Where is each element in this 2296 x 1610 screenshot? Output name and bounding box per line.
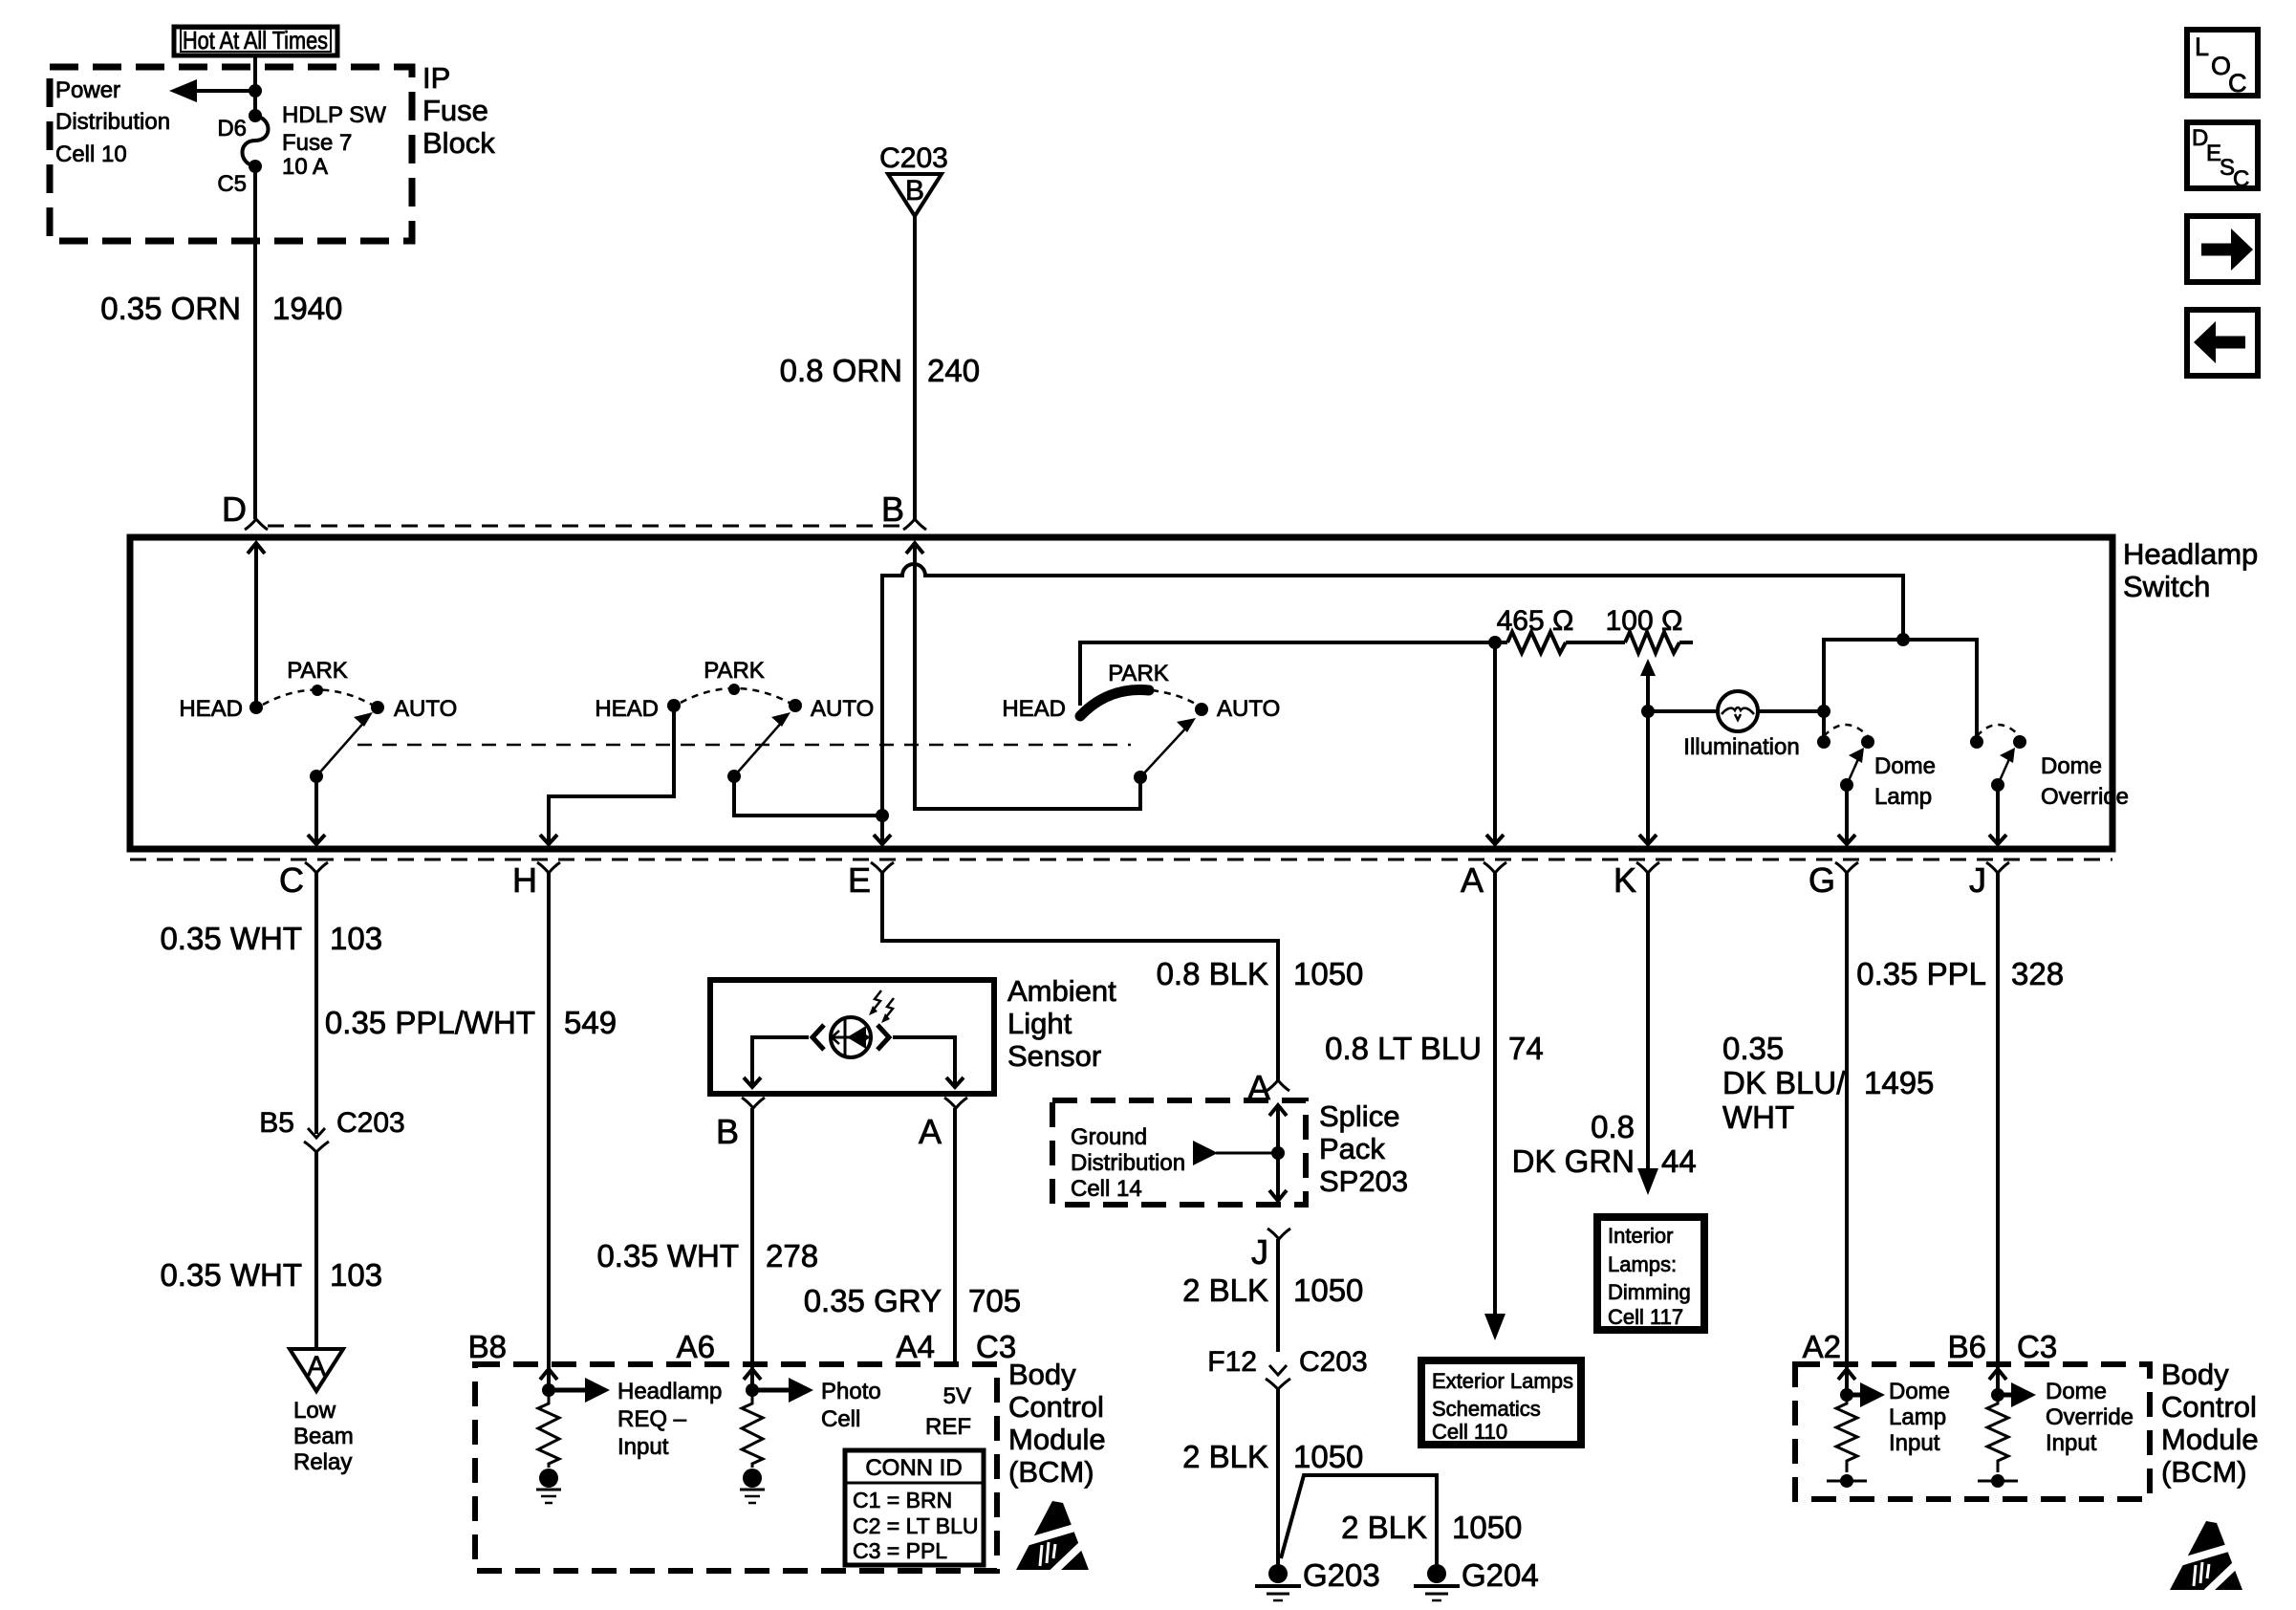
mechanical linkage dashed line: [357, 744, 1131, 747]
wire 0.8 ORN 240 from C203 to switch pin B: [913, 216, 917, 519]
svg-text:Low: Low: [293, 1398, 336, 1424]
resistor B8 pulldown: [538, 1390, 559, 1468]
headlamp switch box outline: [130, 537, 2112, 849]
reference box Interior Lamps: Dimming Cell 117: [1597, 1217, 1704, 1330]
svg-text:10 A: 10 A: [282, 154, 328, 180]
wire S5 wiper to pin J: [1996, 785, 2000, 843]
pin J chevron: [1969, 860, 2009, 900]
switch S2 HEAD contact: [667, 699, 681, 712]
wire 0.35 DK BLU/WHT 1495 pin G to BCM A2: [1845, 873, 1849, 1395]
svg-text:465 Ω: 465 Ω: [1497, 605, 1574, 637]
svg-text:2 BLK: 2 BLK: [1182, 1273, 1268, 1308]
arrow Ground Distribution to splice: [1193, 1141, 1278, 1165]
wire 0.35 PPL 328 pin J to BCM B6: [1996, 873, 2000, 1395]
wire 2 BLK 1050 branch to G204: [1281, 1475, 1437, 1565]
svg-text:1940: 1940: [272, 291, 342, 326]
switch S3 wiper arm: [1134, 718, 1196, 784]
svg-text:A: A: [919, 1112, 942, 1151]
svg-text:Photo: Photo: [821, 1379, 881, 1404]
svg-text:Module: Module: [2161, 1423, 2259, 1456]
svg-text:Headlamp: Headlamp: [2123, 537, 2258, 571]
wire illumination lamp feed: [1648, 709, 1719, 713]
switch S1 wiper: [310, 712, 373, 783]
splice pack pin A chevron: [1247, 1068, 1289, 1107]
svg-text:Dome: Dome: [2041, 753, 2102, 779]
ground G203: [1255, 1557, 1380, 1600]
svg-text:0.35: 0.35: [1722, 1031, 1784, 1066]
svg-text:705: 705: [968, 1283, 1021, 1318]
label Power Distribution Cell 10: [55, 77, 170, 167]
label 5V REF at pin A4: [925, 1383, 971, 1440]
svg-text:0.35 ORN: 0.35 ORN: [100, 291, 241, 326]
wire 2 BLK 1050 SP203 to F12: [1276, 1239, 1280, 1352]
svg-text:B: B: [905, 175, 924, 207]
label Body Control Module (BCM): [1008, 1358, 1106, 1489]
svg-text:HEAD: HEAD: [595, 696, 659, 722]
node K wire junction: [1641, 705, 1655, 718]
connector dashed line at switch top: [268, 525, 904, 528]
wire 0.8 LT BLU 74 to Exterior Lamps: [1493, 873, 1497, 1319]
node illumination junction: [1817, 705, 1830, 718]
svg-text:F12: F12: [1207, 1346, 1257, 1378]
CONN ID table: [845, 1450, 984, 1565]
svg-text:Distribution: Distribution: [55, 109, 170, 135]
svg-text:C: C: [2233, 166, 2249, 192]
svg-text:103: 103: [330, 1257, 382, 1293]
svg-text:Cell 110: Cell 110: [1432, 1420, 1507, 1444]
svg-text:A: A: [1461, 860, 1484, 900]
svg-text:0.8 ORN: 0.8 ORN: [780, 353, 902, 388]
svg-text:(BCM): (BCM): [1008, 1455, 1094, 1489]
wire 0.35 WHT 103 pin C to C203 B5: [314, 873, 318, 1134]
wire label 0.8 DK GRN 44: [1512, 1109, 1697, 1179]
wire E riser with hop over B wire: [882, 564, 1903, 816]
svg-text:0.35 PPL: 0.35 PPL: [1856, 956, 1986, 991]
svg-text:1495: 1495: [1864, 1065, 1934, 1100]
right arrow box: [2187, 216, 2258, 282]
switch S3 AUTO contact: [1195, 703, 1208, 716]
wire between resistors: [1566, 641, 1625, 644]
ESD symbol 1: [1016, 1501, 1090, 1576]
svg-text:L: L: [2195, 33, 2209, 61]
wire label 0.35 DK BLU/WHT 1495: [1722, 1031, 1934, 1135]
svg-text:G204: G204: [1462, 1557, 1539, 1593]
svg-text:B6: B6: [1948, 1329, 1986, 1364]
svg-text:Cell 10: Cell 10: [55, 141, 127, 167]
inline connector C203 pin B5: [259, 1107, 404, 1152]
label Dome Override Input: [2046, 1379, 2134, 1456]
label Dome Lamp: [1874, 753, 1936, 810]
wire wiper to pin K: [1646, 711, 1650, 843]
svg-text:Dimming: Dimming: [1608, 1280, 1691, 1304]
svg-text:2 BLK: 2 BLK: [1182, 1439, 1268, 1474]
wire junction to pin A: [1493, 642, 1497, 843]
svg-text:Override: Override: [2046, 1404, 2134, 1430]
svg-text:C3 = PPL: C3 = PPL: [853, 1538, 947, 1563]
svg-text:Switch: Switch: [2123, 570, 2210, 603]
svg-text:G203: G203: [1303, 1557, 1380, 1593]
left arrow box: [2187, 310, 2258, 376]
svg-text:328: 328: [2011, 956, 2064, 991]
DESC box: [2187, 122, 2258, 192]
node dome feed junction: [1896, 633, 1910, 646]
switch S2 wiper: [727, 712, 791, 783]
svg-text:Override: Override: [2041, 784, 2129, 810]
wire arrow to Power Distribution: [169, 79, 255, 102]
wire label 0.35 ORN 1940: [100, 291, 342, 326]
ESD symbol 2: [2170, 1521, 2243, 1596]
svg-text:Dome: Dome: [2046, 1379, 2107, 1404]
label IP Fuse Block: [422, 61, 495, 160]
svg-text:Hot At All Times: Hot At All Times: [183, 26, 328, 54]
node B8 junction: [542, 1383, 555, 1397]
wire 0.8 BLK 1050 pin E to splice pack: [882, 873, 1278, 1081]
svg-text:0.35 WHT: 0.35 WHT: [596, 1238, 739, 1273]
node A2 resistor ground bar: [1827, 1474, 1867, 1488]
resistor B6 pulldown: [1987, 1395, 2008, 1472]
svg-text:C2 = LT BLU: C2 = LT BLU: [853, 1513, 978, 1538]
wire 0.8 DK GRN 44 to Interior Lamps: [1646, 873, 1650, 1174]
svg-text:Dome: Dome: [1874, 753, 1936, 779]
label Headlamp Switch: [2123, 537, 2258, 603]
svg-text:AUTO: AUTO: [394, 696, 457, 722]
svg-text:Lamp: Lamp: [1874, 784, 1932, 810]
arrow Photo Cell: [752, 1378, 813, 1403]
svg-text:HEAD: HEAD: [179, 696, 243, 722]
svg-text:PARK: PARK: [704, 658, 765, 684]
svg-text:IP: IP: [422, 61, 450, 95]
node resistor row junction A: [1488, 636, 1502, 649]
svg-text:Cell 14: Cell 14: [1071, 1176, 1142, 1202]
svg-text:Power: Power: [55, 77, 120, 103]
svg-text:E: E: [848, 860, 871, 900]
svg-text:1050: 1050: [1293, 1273, 1363, 1308]
svg-text:0.8 BLK: 0.8 BLK: [1157, 956, 1268, 991]
svg-text:C203: C203: [336, 1107, 405, 1139]
label Low Beam Relay: [293, 1398, 354, 1475]
pin K exit arrow: [1639, 835, 1657, 844]
pin G chevron: [1809, 860, 1858, 900]
svg-text:Interior: Interior: [1608, 1224, 1673, 1248]
svg-text:C: C: [2228, 69, 2247, 98]
svg-text:1050: 1050: [1293, 1439, 1363, 1474]
svg-text:A2: A2: [1803, 1329, 1841, 1364]
svg-text:G: G: [1809, 860, 1835, 900]
svg-text:AUTO: AUTO: [811, 696, 874, 722]
arrow Headlamp REQ Input: [549, 1378, 610, 1403]
Hot At All Times box: [174, 26, 337, 55]
switch S5 wiper: [1991, 748, 2015, 792]
splice pack SP203 dashed box: [1052, 1100, 1306, 1205]
svg-text:J: J: [1969, 860, 1986, 900]
svg-text:C3: C3: [2017, 1329, 2057, 1364]
pin D entry arrow: [248, 543, 265, 554]
label Headlamp REQ - Input: [617, 1379, 722, 1460]
svg-text:5V: 5V: [943, 1383, 971, 1409]
pin H chevron: [512, 860, 560, 900]
pin B chevron: [881, 490, 926, 530]
switch S3 wiper blade (HEAD-PARK position, thick): [1080, 690, 1149, 716]
switch S4 wiper: [1840, 748, 1864, 792]
svg-text:0.8: 0.8: [1591, 1109, 1635, 1144]
pin B6 entry arrow: [1989, 1369, 2006, 1380]
pin A chevron: [1461, 860, 1506, 900]
svg-text:HDLP SW: HDLP SW: [282, 102, 386, 128]
pin H exit arrow: [540, 835, 557, 844]
connector dashed line at switch bottom: [130, 859, 2112, 861]
lamp Illumination: [1683, 691, 1799, 760]
switch S1 PARK contact: [312, 685, 323, 696]
resistor A6 pulldown: [742, 1390, 763, 1468]
wire 0.35 ORN 1940 from fuse C5 to switch pin D: [253, 166, 257, 519]
pin J exit arrow: [1989, 835, 2006, 844]
inline connector C203 pin F12: [1207, 1346, 1367, 1389]
connector C203 triangle pin B (top): [879, 142, 948, 216]
switch S1 travel arc: [263, 690, 372, 706]
svg-text:CONN ID: CONN ID: [865, 1455, 962, 1481]
svg-text:REF: REF: [925, 1414, 971, 1440]
svg-text:Schematics: Schematics: [1432, 1397, 1541, 1421]
wire S2 HEAD to pin H: [549, 706, 674, 843]
svg-text:D6: D6: [217, 116, 247, 141]
svg-text:HEAD: HEAD: [1002, 696, 1066, 722]
svg-text:549: 549: [564, 1005, 617, 1040]
svg-text:C: C: [279, 860, 304, 900]
svg-text:Fuse: Fuse: [422, 94, 488, 127]
svg-text:Splice: Splice: [1319, 1099, 1399, 1133]
svg-text:Headlamp: Headlamp: [617, 1379, 722, 1404]
wire label 0.8 LT BLU 74: [1325, 1031, 1544, 1066]
wire S1 wiper to pin C: [314, 776, 318, 843]
svg-text:A4: A4: [897, 1329, 935, 1364]
resistor R1 465 ohm: [1497, 605, 1574, 653]
label Ground Distribution Cell 14: [1071, 1124, 1185, 1202]
svg-text:0.8 LT BLU: 0.8 LT BLU: [1325, 1031, 1482, 1066]
switch S1 HEAD contact: [249, 701, 263, 714]
svg-text:B8: B8: [468, 1329, 507, 1364]
switch S2 travel arc: [681, 688, 790, 703]
svg-text:0.35 GRY: 0.35 GRY: [804, 1283, 942, 1318]
connector triangle pin A to Low Beam Relay: [290, 1349, 343, 1391]
node E riser junction: [876, 809, 889, 822]
svg-text:A: A: [307, 1351, 326, 1382]
sensor pin B chevron: [716, 1098, 765, 1151]
svg-text:DK BLU/: DK BLU/: [1722, 1065, 1846, 1100]
wire S2 wiper to E riser: [734, 776, 882, 816]
svg-text:0.35 WHT: 0.35 WHT: [160, 921, 302, 956]
svg-text:SP203: SP203: [1319, 1164, 1408, 1198]
wire pin B to S3 wiper: [915, 545, 1140, 809]
IP Fuse Block dashed box: [50, 67, 412, 241]
node SP203 junction: [1271, 1146, 1285, 1160]
arrow Dome Override Input: [1998, 1382, 2036, 1407]
wire label 0.8 BLK 1050: [1157, 956, 1364, 991]
svg-text:AUTO: AUTO: [1217, 696, 1280, 722]
node A6 junction: [746, 1383, 759, 1397]
svg-text:Lamp: Lamp: [1889, 1404, 1946, 1430]
svg-text:B5: B5: [259, 1107, 294, 1139]
pin B entry arrow: [906, 543, 923, 554]
svg-text:Fuse 7: Fuse 7: [282, 130, 352, 156]
wire S4 wiper to pin G: [1845, 785, 1849, 843]
wire label 2 BLK 1050: [1182, 1439, 1363, 1474]
svg-text:Sensor: Sensor: [1007, 1039, 1101, 1073]
wire label 2 BLK 1050: [1341, 1510, 1522, 1545]
pin D chevron: [222, 490, 268, 530]
svg-text:Module: Module: [1008, 1423, 1106, 1456]
wire label 2 BLK 1050: [1182, 1273, 1363, 1308]
switch S2 PARK contact: [728, 684, 740, 695]
svg-text:1050: 1050: [1293, 956, 1363, 991]
wire label 0.35 WHT 103: [160, 1257, 382, 1293]
svg-text:74: 74: [1508, 1031, 1544, 1066]
wire photocell left to sensor pin B: [752, 1037, 809, 1086]
label Ambient Light Sensor: [1007, 974, 1116, 1073]
pin C chevron: [279, 860, 328, 900]
wire 0.35 WHT 103 to Low Beam Relay: [314, 1152, 318, 1348]
pin K chevron: [1614, 860, 1659, 900]
svg-text:Cell 117: Cell 117: [1608, 1305, 1683, 1329]
svg-text:K: K: [1614, 860, 1636, 900]
pin E chevron: [848, 860, 894, 900]
wire 0.35 GRY 705 sensor A to BCM A4: [953, 1108, 957, 1364]
svg-text:240: 240: [927, 353, 980, 388]
svg-text:C203: C203: [1299, 1346, 1368, 1378]
fuse F7 HDLP SW 10A: [243, 109, 269, 173]
svg-text:0.35 PPL/WHT: 0.35 PPL/WHT: [325, 1005, 535, 1040]
svg-text:Block: Block: [422, 126, 495, 160]
pin A6 entry arrow: [744, 1369, 761, 1380]
label Dome Override: [2041, 753, 2129, 810]
svg-text:Input: Input: [617, 1434, 669, 1460]
switch S5 Dome Override contacts: [1970, 725, 2026, 749]
svg-text:Lamps:: Lamps:: [1608, 1252, 1677, 1276]
svg-text:C1 = BRN: C1 = BRN: [853, 1488, 952, 1512]
wire photocell right to sensor pin A: [893, 1037, 955, 1086]
label Body Control Module (BCM): [2161, 1358, 2259, 1489]
node B6 resistor ground bar: [1978, 1474, 2018, 1488]
svg-text:J: J: [1251, 1232, 1268, 1272]
svg-text:C203: C203: [879, 142, 948, 174]
svg-text:PARK: PARK: [1108, 661, 1169, 686]
reference box Exterior Lamps Schematics Cell 110: [1421, 1360, 1581, 1445]
switch S1 AUTO contact: [371, 701, 384, 714]
LOC box: [2187, 30, 2258, 98]
svg-text:Ambient: Ambient: [1007, 974, 1116, 1008]
switch S4 Dome Lamp contacts: [1817, 725, 1874, 749]
pin G exit arrow: [1838, 835, 1855, 844]
ground G204: [1414, 1557, 1539, 1600]
resistor R2 100 ohm potentiometer: [1606, 605, 1693, 653]
svg-text:H: H: [512, 860, 537, 900]
svg-text:REQ –: REQ –: [617, 1406, 687, 1432]
svg-text:Body: Body: [1008, 1358, 1076, 1391]
pin B8 entry arrow: [540, 1369, 557, 1380]
wire label 0.8 ORN 240: [780, 353, 980, 388]
svg-text:PARK: PARK: [287, 658, 348, 684]
resistor A2 pulldown: [1836, 1395, 1857, 1472]
svg-text:1050: 1050: [1452, 1510, 1522, 1545]
switch S2 AUTO contact: [789, 699, 802, 712]
wire label 0.35 WHT 278: [596, 1238, 818, 1273]
arrow Dome Lamp Input: [1847, 1382, 1885, 1407]
photocell PC1: [812, 1017, 889, 1057]
svg-text:Cell: Cell: [821, 1406, 860, 1432]
pin A exit arrow: [1486, 835, 1504, 844]
svg-text:A6: A6: [677, 1329, 715, 1364]
wire from Hot At All Times to fuse: [253, 55, 257, 116]
potentiometer wiper arrow: [1640, 659, 1656, 711]
wire top feed to dome switches: [1824, 640, 1977, 742]
label Dome Lamp Input: [1889, 1379, 1950, 1456]
svg-text:WHT: WHT: [1722, 1099, 1794, 1135]
wire label 0.35 PPL 328: [1856, 956, 2064, 991]
label Photo Cell: [821, 1379, 881, 1432]
wire 0.35 WHT 278 sensor B to BCM A6: [750, 1108, 754, 1390]
svg-text:Control: Control: [1008, 1390, 1104, 1424]
svg-text:B: B: [716, 1112, 739, 1151]
wire label 0.35 WHT 103: [160, 921, 382, 956]
svg-text:C5: C5: [217, 171, 247, 197]
ground G-B8: [536, 1469, 561, 1503]
label Splice Pack SP203: [1319, 1099, 1408, 1198]
wire label 0.35 PPL/WHT 549: [325, 1005, 617, 1040]
splice wire through SP203: [1269, 1105, 1287, 1201]
svg-text:Body: Body: [2161, 1358, 2229, 1391]
wire 0.35 PPL/WHT 549 pin H to BCM B8: [547, 873, 551, 1390]
ground G-A6: [740, 1469, 765, 1503]
svg-text:Control: Control: [2161, 1390, 2257, 1424]
wire E riser to pin E: [880, 816, 884, 843]
pin E exit arrow: [874, 835, 891, 844]
sensor pin A chevron: [919, 1098, 967, 1151]
switch S3 HEAD contact wire to resistors: [1080, 642, 1507, 706]
photocell light rays: [869, 990, 894, 1023]
ambient light sensor box: [710, 980, 994, 1094]
svg-text:278: 278: [766, 1238, 818, 1273]
svg-text:DK GRN: DK GRN: [1512, 1143, 1635, 1179]
wire pin D to HEAD contact: [254, 545, 258, 707]
svg-text:Distribution: Distribution: [1071, 1150, 1185, 1176]
pin A2 entry arrow: [1838, 1369, 1855, 1380]
pin C exit arrow: [308, 835, 325, 844]
svg-text:Ground: Ground: [1071, 1124, 1147, 1150]
svg-text:Illumination: Illumination: [1683, 734, 1799, 760]
wire label 0.35 GRY 705: [804, 1283, 1021, 1318]
svg-text:Relay: Relay: [293, 1449, 352, 1475]
svg-text:B: B: [881, 490, 904, 529]
svg-text:Input: Input: [1889, 1430, 1940, 1456]
svg-text:103: 103: [330, 921, 382, 956]
node junction to Power Distribution: [249, 84, 262, 98]
svg-text:Exterior Lamps: Exterior Lamps: [1432, 1369, 1573, 1393]
BCM1 dashed box: [475, 1364, 997, 1571]
node B6 junction: [1991, 1388, 2004, 1402]
fuse value label HDLP SW Fuse 7 10 A: [282, 102, 386, 180]
svg-text:(BCM): (BCM): [2161, 1455, 2247, 1489]
svg-text:Pack: Pack: [1319, 1132, 1385, 1165]
svg-text:Light: Light: [1007, 1007, 1072, 1040]
BCM2 dashed box: [1795, 1364, 2150, 1499]
svg-text:44: 44: [1661, 1143, 1697, 1179]
svg-text:Dome: Dome: [1889, 1379, 1950, 1404]
splice pack pin J chevron: [1251, 1229, 1290, 1272]
node A2 junction: [1840, 1388, 1853, 1402]
switch S3 travel arc: [1152, 690, 1197, 705]
svg-text:Input: Input: [2046, 1430, 2097, 1456]
wire 2 BLK 1050 F12 to G203: [1276, 1389, 1280, 1565]
svg-text:0.35 WHT: 0.35 WHT: [160, 1257, 302, 1293]
